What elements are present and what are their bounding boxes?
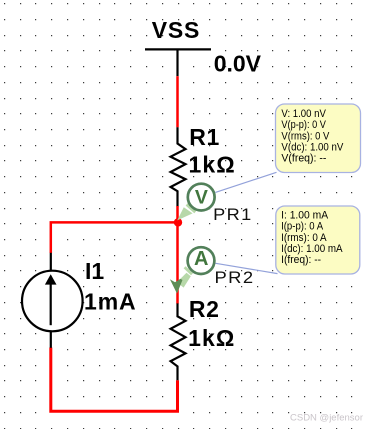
probe arrow PR1 — [177, 203, 196, 220]
svg-text:R2: R2 — [189, 296, 220, 322]
svg-text:A: A — [194, 248, 208, 270]
svg-text:R1: R1 — [189, 124, 220, 150]
svg-text:1kΩ: 1kΩ — [189, 151, 236, 177]
svg-text:VSS: VSS — [152, 17, 200, 43]
svg-text:0.0V: 0.0V — [214, 50, 262, 76]
power symbol VSS — [145, 49, 211, 76]
callout box PR2 — [276, 206, 360, 274]
svg-text:PR2: PR2 — [215, 268, 255, 287]
svg-text:V(freq): --: V(freq): -- — [281, 153, 326, 165]
probe arrow PR2 — [170, 266, 193, 293]
wire I1 to bottom rail — [51, 348, 178, 412]
callout box PR1 — [276, 104, 361, 173]
svg-text:1mA: 1mA — [84, 289, 137, 315]
current source I1 — [22, 253, 83, 348]
junction node — [174, 218, 182, 226]
svg-text:CSDN @jefensor: CSDN @jefensor — [290, 413, 363, 424]
resistor R2 — [171, 303, 186, 380]
resistor R1 — [171, 127, 186, 206]
wire junction to I1 (horizontal + left vertical top) — [51, 222, 178, 253]
probe PR2 (current) — [188, 247, 215, 274]
callout line PR1 — [215, 172, 276, 192]
wire VSS to R1 — [176, 76, 179, 127]
wire R1 to R2 (middle vertical) — [176, 206, 179, 304]
callout line PR2 — [216, 263, 278, 273]
svg-text:V: V — [195, 186, 208, 208]
svg-text:PR1: PR1 — [213, 205, 253, 224]
svg-text:I(freq): --: I(freq): -- — [281, 254, 321, 266]
svg-text:I1: I1 — [85, 258, 104, 284]
svg-text:1kΩ: 1kΩ — [188, 325, 235, 351]
probe PR1 (voltage) — [188, 184, 215, 211]
